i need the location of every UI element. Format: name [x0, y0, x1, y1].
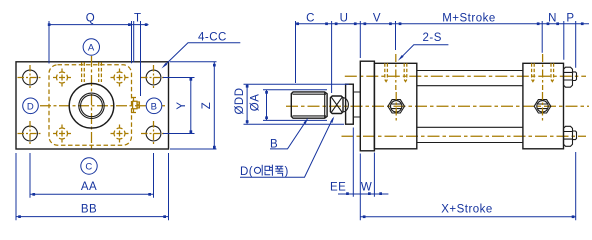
svg-text:2-S: 2-S: [423, 32, 442, 44]
gland collar (ØDD): [346, 84, 354, 124]
svg-text:X+Stroke: X+Stroke: [441, 204, 493, 216]
svg-text:C: C: [85, 162, 92, 173]
side port boss thread (right edge of dashed square): [131, 98, 139, 113]
dim X+Stroke: [360, 152, 575, 220]
tie rod hole top-left: [53, 69, 71, 87]
svg-text:BB: BB: [81, 204, 97, 216]
port hidden lines (top center): [82, 62, 102, 82]
node D (circled letter): [23, 98, 39, 114]
svg-text:EE: EE: [330, 181, 346, 193]
tie rods between blocks: [417, 71, 523, 143]
corner hole top-left: [18, 65, 43, 90]
center horizontal centerline: [40, 105, 165, 107]
bottom tie rod centerline: [342, 135, 587, 137]
node B (circled letter): [146, 98, 162, 114]
svg-text:C: C: [306, 13, 315, 25]
svg-text:U: U: [340, 13, 349, 25]
top tie rod nut: [564, 67, 577, 87]
flange plate outline: [16, 62, 169, 149]
bottom tie rod nut: [564, 126, 577, 146]
svg-text:P: P: [566, 13, 574, 25]
center boss circle: [69, 84, 114, 129]
node C (circled letter): [81, 158, 97, 174]
svg-text:Y: Y: [176, 101, 188, 109]
svg-text:D: D: [27, 101, 34, 112]
top tie rod centerline: [345, 75, 586, 77]
svg-text:ØDD: ØDD: [234, 87, 246, 114]
svg-text:T: T: [134, 13, 142, 25]
dashed cylinder square (hidden body): [49, 65, 132, 145]
label D(across flats) with leader: [240, 116, 334, 178]
svg-text:AA: AA: [81, 181, 97, 193]
svg-text:V: V: [373, 13, 381, 25]
hangul 면: [265, 165, 272, 176]
hangul 폭: [275, 166, 283, 176]
cap socket screw (hex plug): [534, 92, 551, 123]
front flange plate: [360, 61, 374, 151]
tie rod hole bottom-left: [53, 125, 71, 143]
dim chain C U V M+Stroke N P: [296, 13, 590, 94]
svg-text:A: A: [88, 43, 95, 54]
label 2-S with leader: [398, 32, 449, 61]
svg-text:D(: D(: [240, 166, 253, 178]
svg-text:4-CC: 4-CC: [198, 32, 227, 44]
svg-text:Z: Z: [201, 102, 213, 110]
main centerline: [286, 105, 589, 107]
head block: [374, 63, 416, 149]
head port thread (hidden): [385, 54, 407, 90]
dim Y: [163, 78, 195, 134]
dim ØA: [250, 90, 327, 121]
corner hole bottom-left: [18, 121, 43, 146]
dim Z: [170, 62, 217, 149]
hangul 이: [254, 165, 262, 176]
svg-text:B: B: [151, 101, 158, 112]
tie rod hole top-right: [111, 69, 129, 87]
cap block: [523, 63, 564, 149]
dim EE: [330, 128, 388, 221]
rod hole circles: [79, 93, 104, 118]
cap port thread (hidden): [532, 54, 554, 90]
corner hole bottom-right: [141, 121, 166, 146]
svg-text:N: N: [548, 13, 557, 25]
dim ØDD: [234, 84, 349, 124]
corner hole top-right: [141, 65, 166, 90]
dim Q: [48, 13, 132, 64]
tie rod hole bottom-right: [111, 125, 129, 143]
piston rod thread section: [291, 92, 327, 118]
rod wrench flats (square with X): [330, 96, 348, 114]
dim AA: [30, 153, 154, 198]
svg-text:Q: Q: [86, 13, 95, 25]
svg-text:ØA: ØA: [250, 94, 262, 112]
dim T: [132, 13, 149, 97]
svg-text:): ): [285, 166, 289, 178]
node A (circled letter): [83, 39, 99, 55]
center vertical centerline: [91, 56, 93, 151]
svg-text:W: W: [361, 181, 372, 193]
svg-text:M+Stroke: M+Stroke: [442, 13, 496, 25]
label 4-CC with leader: [162, 32, 241, 69]
neck between collar and flange: [353, 92, 360, 117]
label B with leader: [270, 118, 308, 151]
head socket screw (hex plug): [388, 92, 405, 123]
dim BB: [16, 153, 169, 220]
